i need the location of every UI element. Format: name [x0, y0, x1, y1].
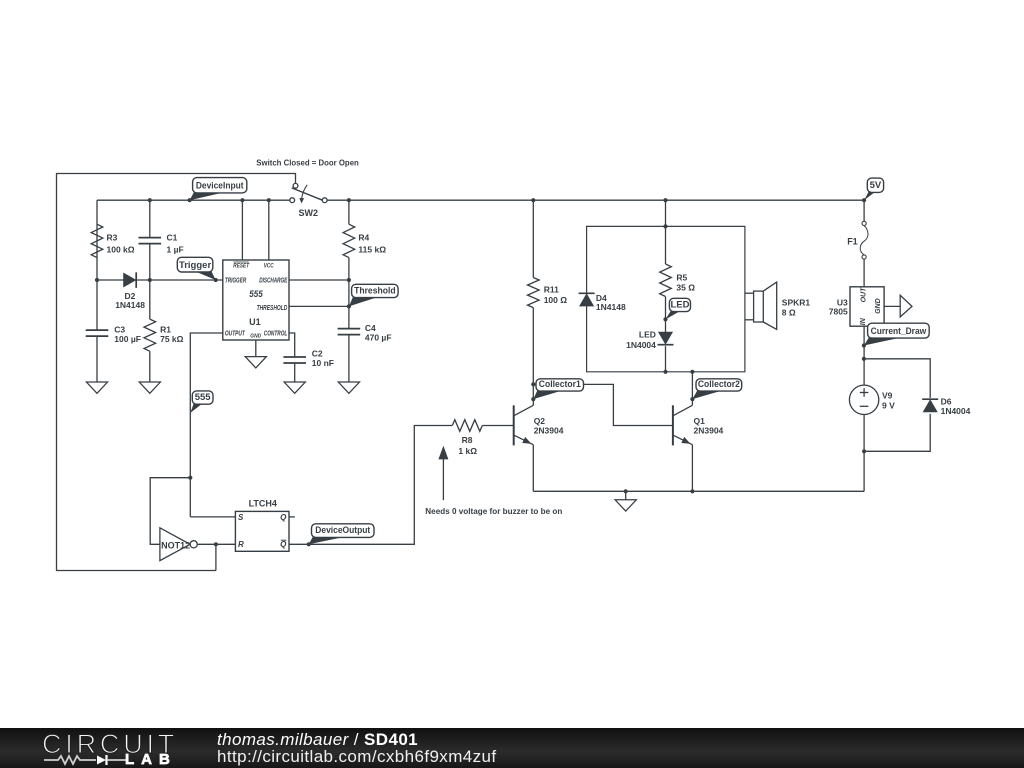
wire Q2 emitter down: [532, 445, 534, 492]
node threshold/C4: [347, 304, 351, 308]
wire R4 to DISCHARGE junction: [348, 258, 350, 280]
wire R5 top lead: [665, 226, 667, 264]
node collector1 tip: [531, 397, 535, 401]
svg-text:R8: R8: [462, 435, 473, 445]
svg-text:Q: Q: [280, 540, 287, 549]
diode D6 body: [922, 398, 938, 400]
resistor R3 body: [91, 224, 103, 257]
flag DeviceOutput: [309, 536, 347, 544]
wire THRESHOLD pin row: [289, 305, 349, 307]
resistor R5 body: [660, 264, 672, 297]
wire LTCH4 Qbar to R8 (DeviceOutput net): [289, 426, 452, 545]
svg-text:35 Ω: 35 Ω: [676, 283, 695, 293]
node bus/VCC: [267, 198, 271, 202]
svg-text:TRIGGER: TRIGGER: [225, 276, 247, 285]
ground below R1: [139, 382, 160, 393]
wire U3 GND pin to common symbol: [884, 305, 900, 307]
svg-text:Switch Closed = Door Open: Switch Closed = Door Open: [256, 158, 359, 168]
wire R8 to Q2 base: [482, 425, 513, 427]
speaker SPKR1 body: [754, 291, 764, 322]
CircuitLab logo resistor-diode glyph: [44, 754, 126, 766]
node trigger/C1/R1: [148, 278, 152, 282]
diode LED body: [659, 332, 672, 344]
svg-text:1N4148: 1N4148: [596, 302, 626, 312]
flag 5V: [864, 191, 876, 200]
switch SW2 left terminal: [290, 198, 295, 203]
wire Q1 emitter down: [691, 445, 693, 492]
op-amp U1 555 timer box: [223, 260, 289, 340]
svg-text:Q2: Q2: [534, 416, 546, 426]
wire 555 net branch to NOT12 input: [150, 478, 190, 545]
svg-text:Collector2: Collector2: [698, 379, 740, 389]
wire VCC pin stub: [268, 200, 270, 260]
svg-text:1N4148: 1N4148: [115, 300, 145, 310]
regulator U3 7805 box: [850, 287, 884, 326]
node Current_Draw flag: [862, 343, 866, 347]
node bus/R5 drop: [663, 198, 667, 202]
capacitor C3 body: [86, 329, 109, 331]
svg-text:470 µF: 470 µF: [365, 333, 392, 343]
svg-text:LED: LED: [639, 330, 656, 340]
wire bus drop into buzzer box top: [665, 200, 667, 226]
svg-text:Q1: Q1: [694, 416, 706, 426]
transistor Q2 body: [513, 405, 515, 445]
node V9 bottom/D6: [862, 449, 866, 453]
svg-text:Threshold: Threshold: [354, 285, 396, 296]
node collector1 link: [531, 382, 535, 386]
svg-text:R: R: [238, 540, 244, 549]
flag Collector2: [692, 390, 723, 399]
wire feedback loop from NOT12 output up left side to SW2 top throw: [57, 174, 296, 571]
svg-text:C1: C1: [167, 233, 178, 243]
wire bottom ground bus: [533, 490, 864, 492]
svg-text:115 kΩ: 115 kΩ: [358, 245, 386, 255]
svg-text:9 V: 9 V: [882, 400, 895, 410]
node box top/R5: [663, 224, 667, 228]
footer credit text: [217, 731, 497, 766]
resistor R8 body: [452, 420, 482, 432]
flag Threshold: [349, 297, 379, 307]
node collector2 tip: [690, 397, 694, 401]
resistor R11 body: [528, 278, 540, 308]
node ground bus/Q1 emitter: [690, 489, 694, 493]
diode D4 body: [579, 292, 595, 294]
svg-text:NOT12: NOT12: [161, 540, 190, 550]
flag Trigger: [194, 271, 215, 280]
wire trigger node to C3: [96, 280, 98, 330]
wire Collector1 to Q1 base link: [533, 384, 673, 425]
diode D2 body: [124, 273, 136, 286]
svg-text:CONTROL: CONTROL: [264, 329, 288, 338]
svg-text:S: S: [238, 513, 244, 522]
node box bottom/LED: [663, 370, 667, 374]
node box bottom/Q1: [690, 370, 694, 374]
flag DeviceInput: [190, 192, 227, 200]
common symbol on U3 GND: [900, 295, 912, 317]
svg-text:LTCH4: LTCH4: [249, 498, 277, 508]
wire C1 column top: [149, 200, 151, 237]
svg-text:U1: U1: [249, 317, 261, 327]
wire R11 column from bus: [532, 200, 534, 277]
node bus/RESET: [240, 198, 244, 202]
wire DISCHARGE pin row: [289, 279, 349, 281]
switch SW2 right terminal: [322, 198, 327, 203]
svg-text:Current_Draw: Current_Draw: [871, 326, 927, 337]
wire 5V node down to fuse: [863, 200, 865, 221]
wire U1 CONTROL pin to C2: [289, 333, 295, 357]
switch SW2 toggle arrow: [302, 185, 308, 199]
svg-text:555: 555: [195, 392, 212, 403]
svg-text:75 kΩ: 75 kΩ: [160, 334, 184, 344]
wire C4 to ground: [348, 335, 350, 382]
svg-text:GND: GND: [250, 334, 261, 340]
svg-text:5V: 5V: [870, 180, 882, 191]
svg-text:8 Ω: 8 Ω: [782, 308, 796, 318]
svg-text:DeviceInput: DeviceInput: [196, 181, 244, 192]
svg-text:GND: GND: [875, 298, 882, 314]
flag Current_Draw: [864, 337, 903, 345]
wire NOT12 output to LTCH4 R input: [197, 543, 235, 545]
node ground bus/stem: [624, 489, 628, 493]
wire LED cathode to box bottom: [665, 346, 667, 372]
svg-text:V9: V9: [882, 390, 893, 400]
svg-text:F1: F1: [847, 236, 858, 246]
svg-text:R5: R5: [676, 273, 687, 283]
node bus/R11: [531, 198, 535, 202]
ground mid bottom bus: [615, 500, 636, 511]
wire LTCH4 Q stub: [289, 516, 295, 518]
voltage source V9 body: [849, 385, 878, 414]
wire U1 GND pin stub: [255, 340, 257, 357]
svg-text:SW2: SW2: [299, 208, 319, 218]
wire R4 column: bus to resistor: [348, 200, 350, 224]
wire U3 IN pin down to V9: [863, 326, 865, 385]
wire 555 net to LTCH4 S input: [190, 516, 235, 518]
wire U1 OUTPUT pin to 555 net column: [190, 333, 223, 517]
svg-text:VCC: VCC: [264, 262, 274, 269]
svg-text:OUTPUT: OUTPUT: [225, 329, 245, 338]
capacitor C4 body: [338, 328, 361, 330]
capacitor C1 body: [139, 237, 162, 239]
wire branch to D6 top: [864, 359, 930, 398]
wire RESET pin stub: [241, 200, 243, 260]
wire trigger row left (to D2 anode): [97, 279, 124, 281]
ground below C4: [338, 382, 359, 393]
svg-text:R11: R11: [544, 285, 559, 295]
svg-text:R4: R4: [358, 233, 369, 243]
svg-text:IN: IN: [860, 317, 867, 325]
inverter NOT12 body: [160, 528, 190, 561]
wire R3 column: bus to trigger node: [96, 200, 98, 280]
svg-text:2N3904: 2N3904: [694, 426, 724, 436]
node bus/C1: [148, 198, 152, 202]
CircuitLab logo text LAB: [125, 751, 177, 768]
svg-text:Q: Q: [280, 513, 287, 522]
wire NOT12 output junction down to feedback loop: [215, 544, 217, 570]
node NOT12 out: [214, 542, 218, 546]
wire C3 to ground: [96, 336, 98, 382]
buzzer box outline (wire rectangle): [587, 226, 745, 371]
node bus/DeviceInput flag: [188, 198, 192, 202]
svg-text:100 kΩ: 100 kΩ: [107, 245, 135, 255]
node trigger/R3: [95, 278, 99, 282]
annotation arrow pointing at DeviceOutput wire: [442, 459, 444, 500]
svg-text:OUT: OUT: [861, 287, 868, 303]
wire fuse to U3 OUT pin: [863, 259, 865, 287]
node bus/5V corner: [862, 198, 866, 202]
svg-text:1 kΩ: 1 kΩ: [458, 446, 477, 456]
flag LED: [666, 311, 681, 320]
wire R1 to ground: [149, 351, 151, 382]
wire R5 bottom to LED flag node: [665, 297, 667, 333]
node trigger/flag: [214, 278, 218, 282]
svg-text:Collector1: Collector1: [539, 379, 581, 389]
wire DISCHARGE junction down to THRESHOLD junction: [348, 280, 350, 306]
fuse F1 body: [862, 221, 866, 225]
capacitor C2 body: [283, 356, 306, 358]
switch SW2 blade: [292, 188, 323, 200]
wire trigger row D2 cathode to U1 TRIGGER pin: [136, 279, 223, 281]
node DeviceOutput flag: [307, 542, 311, 546]
wire R11 bottom to Q2 collector (Collector1 net): [532, 308, 534, 406]
latch LTCH4 box: [235, 511, 289, 551]
node discharge/R4: [347, 278, 351, 282]
wire top bus right segment (5V net): [327, 199, 864, 201]
speaker SPKR1 leads: [745, 292, 754, 294]
svg-text:100 µF: 100 µF: [114, 334, 141, 344]
CircuitLab logo text CIRCUIT: [42, 729, 178, 760]
wire mid ground stem: [625, 491, 627, 500]
svg-text:DeviceOutput: DeviceOutput: [315, 525, 371, 536]
svg-text:C2: C2: [312, 348, 323, 358]
svg-text:SPKR1: SPKR1: [782, 298, 811, 308]
node D6 top branch: [862, 357, 866, 361]
flag Collector1: [533, 390, 563, 399]
svg-text:THRESHOLD: THRESHOLD: [257, 303, 288, 312]
resistor R4 body: [343, 224, 355, 257]
svg-text:1N4004: 1N4004: [941, 406, 971, 416]
ground below U1 GND: [245, 357, 266, 368]
svg-text:1N4004: 1N4004: [626, 340, 656, 350]
ground below C2: [284, 382, 305, 393]
wire C1 column bottom: [149, 244, 151, 280]
wire THRESHOLD junction down to C4: [348, 306, 350, 328]
svg-text:1 µF: 1 µF: [167, 245, 184, 255]
svg-text:100 Ω: 100 Ω: [544, 295, 568, 305]
flag 555 output: [190, 403, 203, 413]
transistor Q1 body: [672, 405, 674, 445]
svg-text:C4: C4: [365, 323, 376, 333]
wire D6 bottom to V9 bottom junction: [864, 414, 930, 451]
svg-text:555: 555: [249, 289, 263, 300]
svg-text:Needs 0 voltage for buzzer to: Needs 0 voltage for buzzer to be on: [425, 506, 562, 516]
switch SW2 top throw terminal: [293, 183, 298, 188]
node bus/R4: [347, 198, 351, 202]
svg-text:7805: 7805: [829, 307, 848, 317]
svg-text:RESET: RESET: [233, 262, 249, 269]
svg-text:Trigger: Trigger: [179, 260, 212, 271]
svg-text:2N3904: 2N3904: [534, 426, 564, 436]
wire C2 to ground: [294, 363, 296, 382]
wire R1 column: [149, 280, 151, 319]
svg-text:LED: LED: [670, 299, 689, 310]
node LED flag: [663, 317, 667, 321]
node 555 net branch: [188, 476, 192, 480]
wire Q1 collector up to buzzer box: [691, 372, 693, 406]
wire V9 minus to bottom junction: [863, 415, 865, 492]
svg-text:R3: R3: [107, 233, 118, 243]
ground below C3: [86, 382, 107, 393]
svg-text:DISCHARGE: DISCHARGE: [259, 276, 287, 285]
resistor R1 body: [144, 319, 156, 351]
svg-text:10 nF: 10 nF: [312, 358, 334, 368]
wire top bus left segment (DeviceInput net): [97, 199, 290, 201]
svg-text:D6: D6: [941, 396, 952, 406]
